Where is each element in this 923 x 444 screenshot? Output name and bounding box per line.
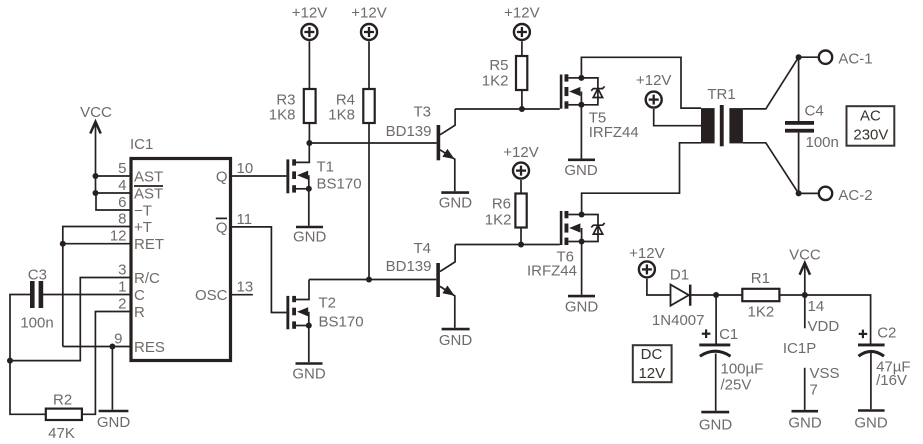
svg-text:230V: 230V bbox=[853, 127, 888, 144]
svg-text:RES: RES bbox=[134, 339, 165, 356]
svg-text:1N4007: 1N4007 bbox=[652, 312, 705, 329]
ground T2 bbox=[292, 364, 326, 383]
transistor T4 BD139 bbox=[386, 240, 455, 328]
svg-text:GND: GND bbox=[293, 229, 327, 246]
node R4-rail bbox=[366, 277, 372, 283]
svg-text:12V: 12V bbox=[638, 365, 665, 382]
svg-text:13: 13 bbox=[237, 279, 254, 296]
wire pin12 to pin9 bbox=[62, 244, 64, 347]
svg-text:T1: T1 bbox=[317, 159, 335, 176]
resistor R4 bbox=[328, 89, 374, 124]
svg-text:AST: AST bbox=[134, 169, 163, 186]
wire to AC-1 terminal bbox=[799, 56, 818, 58]
svg-text:C3: C3 bbox=[28, 267, 47, 284]
svg-text:IC1: IC1 bbox=[130, 136, 153, 153]
svg-text:GND: GND bbox=[854, 415, 888, 432]
svg-text:RET: RET bbox=[134, 236, 164, 253]
terminal AC-1 bbox=[819, 51, 873, 68]
wire R4 down to T2 drain rail bbox=[368, 123, 370, 280]
wire C1 to ground bbox=[715, 354, 717, 411]
node T5 source bbox=[578, 102, 584, 108]
svg-text:100n: 100n bbox=[806, 134, 839, 151]
supply +12V R5 bbox=[504, 5, 539, 57]
svg-text:1K2: 1K2 bbox=[485, 211, 512, 228]
node AC-2 bbox=[796, 190, 802, 196]
body diode T6 bbox=[582, 215, 605, 242]
node pin4-VCC bbox=[93, 190, 99, 196]
svg-text:+12V: +12V bbox=[292, 5, 327, 22]
node T6 drain bbox=[579, 212, 585, 218]
svg-text:T4: T4 bbox=[413, 240, 431, 257]
svg-text:IRFZ44: IRFZ44 bbox=[527, 262, 577, 279]
svg-text:10: 10 bbox=[237, 160, 254, 177]
ground C2 bbox=[854, 411, 888, 432]
svg-text:+T: +T bbox=[134, 219, 152, 236]
svg-text:+12V: +12V bbox=[351, 5, 386, 22]
svg-text:Q: Q bbox=[216, 219, 228, 236]
svg-text:GND: GND bbox=[97, 414, 131, 431]
wire C4 to AC-2 bbox=[798, 133, 800, 194]
node pin8-pin12 bbox=[60, 241, 66, 247]
supply +12V R3 bbox=[292, 5, 327, 90]
svg-text:AC-1: AC-1 bbox=[838, 51, 872, 68]
svg-text:AC-2: AC-2 bbox=[838, 187, 872, 204]
svg-text:BD139: BD139 bbox=[386, 258, 432, 275]
resistor R2 bbox=[46, 392, 82, 443]
ground T1 bbox=[293, 227, 327, 246]
wire pin6 bbox=[96, 193, 131, 210]
wire pin11 to T2 gate bbox=[232, 227, 286, 313]
svg-text:GND: GND bbox=[565, 299, 599, 316]
node R5-T3 collector bbox=[519, 106, 525, 112]
node pin5-VCC bbox=[93, 173, 99, 179]
transistor T5 IRFZ44 bbox=[560, 74, 639, 141]
ground T6 bbox=[565, 296, 599, 315]
node T6 source bbox=[579, 239, 585, 245]
svg-text:1K2: 1K2 bbox=[482, 73, 509, 90]
node R3-T1 drain bbox=[306, 140, 312, 146]
svg-text:R5: R5 bbox=[489, 57, 508, 74]
supply +12V R6 bbox=[503, 144, 538, 194]
wire center tap bbox=[654, 109, 701, 126]
label box AC 230V bbox=[847, 106, 895, 146]
wire C3 left rail bbox=[10, 295, 46, 415]
capacitor C1 bbox=[699, 326, 763, 394]
svg-text:+12V: +12V bbox=[503, 144, 538, 161]
svg-text:C1: C1 bbox=[719, 326, 738, 343]
svg-text:D1: D1 bbox=[670, 266, 689, 283]
VCC supply arrow left bbox=[80, 104, 112, 193]
svg-text:AST: AST bbox=[134, 186, 163, 203]
wire T6 source to ground bbox=[581, 242, 583, 295]
wire pin10 to T1 gate bbox=[232, 175, 286, 177]
wire T2 drain rail to T4 base bbox=[309, 279, 436, 281]
wire C2 to ground bbox=[870, 353, 872, 410]
svg-text:4: 4 bbox=[118, 177, 126, 194]
IC1 pin numbers bbox=[110, 160, 253, 348]
svg-text:C2: C2 bbox=[877, 324, 896, 341]
node pin9-GND bbox=[109, 344, 115, 350]
wire pin12 bbox=[63, 243, 131, 245]
wire pin8 bbox=[63, 227, 131, 244]
supply +12V R4 bbox=[351, 5, 386, 90]
node D1-C1 bbox=[713, 292, 719, 298]
wire R1 to C2 bbox=[779, 295, 870, 344]
svg-text:+12V: +12V bbox=[629, 245, 664, 262]
transistor T6 IRFZ44 bbox=[527, 211, 582, 279]
wire secondary top bbox=[743, 57, 799, 109]
wire pin5 bbox=[96, 175, 132, 177]
node R6-T4 collector bbox=[518, 242, 524, 248]
diode D1 1N4007 bbox=[652, 266, 705, 329]
svg-text:R2: R2 bbox=[53, 392, 72, 409]
wire pin3 bbox=[10, 278, 131, 361]
svg-text:IC1P: IC1P bbox=[783, 340, 816, 357]
wire R3 to T3 base bbox=[309, 142, 436, 144]
ground T4 bbox=[439, 329, 473, 349]
svg-text:TR1: TR1 bbox=[707, 86, 735, 103]
svg-text:5: 5 bbox=[118, 160, 126, 177]
wire T5 drain to transformer top bbox=[581, 57, 701, 108]
svg-text:Q: Q bbox=[216, 169, 228, 186]
wire T4 collector to T6 gate bbox=[455, 244, 560, 246]
svg-text:3: 3 bbox=[118, 262, 126, 279]
svg-text:VSS: VSS bbox=[810, 365, 840, 382]
node AC-1 bbox=[796, 54, 802, 60]
wire pin14 VDD stub bbox=[805, 295, 840, 335]
wire T6 drain to transformer bottom bbox=[582, 143, 701, 215]
svg-text:100µF: 100µF bbox=[721, 361, 764, 378]
svg-text:T3: T3 bbox=[413, 104, 431, 121]
svg-text:DC: DC bbox=[641, 346, 663, 363]
transistor T1 BS170 bbox=[286, 143, 361, 193]
wire D1 to R1 bbox=[690, 294, 742, 296]
ground VSS bbox=[788, 411, 822, 431]
svg-text:OSC: OSC bbox=[195, 287, 228, 304]
transistor T3 BD139 bbox=[386, 104, 455, 192]
svg-text:VCC: VCC bbox=[80, 104, 112, 121]
svg-text:AC: AC bbox=[860, 108, 881, 125]
svg-text:47K: 47K bbox=[48, 425, 75, 442]
resistor R6 bbox=[485, 194, 527, 245]
node VDD bbox=[802, 292, 808, 298]
svg-text:12: 12 bbox=[110, 228, 127, 245]
wire secondary bottom bbox=[743, 143, 799, 194]
svg-text:6: 6 bbox=[118, 194, 126, 211]
transformer TR1 bbox=[701, 86, 743, 146]
node T5 drain bbox=[578, 75, 584, 81]
svg-text:1K8: 1K8 bbox=[269, 107, 296, 124]
terminal AC-2 bbox=[819, 187, 873, 204]
wire pin1 to C3 bbox=[43, 294, 131, 296]
svg-text:BD139: BD139 bbox=[386, 123, 432, 140]
node rail-pin3 bbox=[7, 358, 13, 364]
resistor R3 bbox=[269, 89, 316, 143]
wire +12V to D1 bbox=[647, 279, 671, 295]
svg-text:BS170: BS170 bbox=[319, 314, 364, 331]
IC1 pin labels right bbox=[195, 169, 228, 305]
svg-text:7: 7 bbox=[810, 382, 818, 399]
svg-text:1K2: 1K2 bbox=[748, 304, 775, 321]
svg-text:R/C: R/C bbox=[134, 270, 160, 287]
capacitor C4 bbox=[785, 103, 839, 152]
svg-text:C: C bbox=[134, 287, 145, 304]
wire node to C1 bbox=[715, 295, 717, 344]
wire AC-1 to C4 bbox=[798, 57, 800, 121]
svg-text:GND: GND bbox=[439, 195, 473, 212]
svg-text:GND: GND bbox=[699, 417, 733, 434]
svg-text:/25V: /25V bbox=[721, 377, 752, 394]
svg-text:IRFZ44: IRFZ44 bbox=[589, 124, 639, 141]
svg-text:8: 8 bbox=[118, 211, 126, 228]
wire T1 source to ground bbox=[308, 189, 310, 226]
svg-text:BS170: BS170 bbox=[317, 176, 362, 193]
svg-text:9: 9 bbox=[114, 331, 122, 348]
wire pin7 VSS stub bbox=[805, 365, 840, 410]
wire T5 source to ground bbox=[580, 105, 582, 159]
svg-text:T2: T2 bbox=[319, 295, 337, 312]
wire R2 to pin2 bbox=[82, 312, 131, 415]
svg-text:−T: −T bbox=[134, 203, 152, 220]
svg-text:14: 14 bbox=[808, 298, 825, 315]
svg-text:C4: C4 bbox=[805, 103, 824, 120]
ground T3 bbox=[439, 193, 473, 212]
svg-text:R: R bbox=[134, 304, 145, 321]
resistor R5 bbox=[482, 56, 528, 109]
wire pin13 stub bbox=[232, 294, 253, 296]
svg-text:GND: GND bbox=[788, 415, 822, 432]
svg-text:GND: GND bbox=[564, 162, 598, 179]
svg-text:11: 11 bbox=[237, 211, 253, 228]
wire to AC-2 terminal bbox=[799, 192, 818, 194]
wire T2 source to ground bbox=[308, 326, 310, 363]
svg-text:GND: GND bbox=[439, 332, 473, 349]
svg-text:+12V: +12V bbox=[504, 5, 539, 22]
capacitor C3 bbox=[20, 267, 53, 332]
wire pin9 bbox=[63, 346, 131, 348]
svg-text:1K8: 1K8 bbox=[328, 107, 355, 124]
wire pin9 to ground bbox=[111, 347, 113, 410]
svg-text:/16V: /16V bbox=[876, 372, 907, 389]
ground pin9 bbox=[97, 411, 131, 431]
body diode T5 bbox=[581, 78, 604, 105]
svg-text:2: 2 bbox=[118, 296, 126, 313]
transistor T2 BS170 bbox=[286, 280, 363, 331]
node T1 source bbox=[306, 186, 312, 192]
capacitor C2 bbox=[858, 324, 911, 389]
supply +12V DC input bbox=[629, 245, 664, 277]
svg-text:R6: R6 bbox=[492, 196, 511, 213]
supply +12V transformer center tap bbox=[636, 72, 671, 108]
svg-text:R1: R1 bbox=[751, 270, 770, 287]
svg-text:+12V: +12V bbox=[636, 72, 671, 89]
svg-text:GND: GND bbox=[292, 366, 326, 383]
svg-text:1: 1 bbox=[118, 279, 126, 296]
resistor R1 bbox=[742, 270, 779, 321]
wire T3 collector to T5 gate bbox=[455, 108, 560, 110]
svg-text:VDD: VDD bbox=[808, 318, 840, 335]
ground T5 bbox=[564, 160, 598, 179]
label box DC 12V bbox=[633, 345, 672, 382]
IC1 pin labels left bbox=[134, 169, 165, 357]
ground C1 bbox=[699, 412, 733, 433]
IC IC1 bbox=[130, 136, 231, 361]
node T2 source bbox=[306, 323, 312, 329]
VCC supply arrow right bbox=[789, 247, 821, 296]
wire pin4 bbox=[96, 192, 132, 194]
svg-text:100n: 100n bbox=[20, 314, 53, 331]
